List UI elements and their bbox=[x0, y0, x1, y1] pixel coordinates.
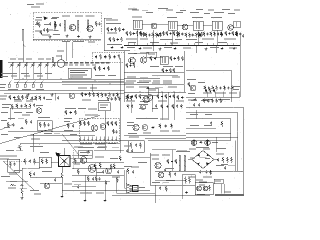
oscillator transistor Q2 bbox=[69, 24, 76, 31]
label row bbox=[203, 93, 237, 94]
switch transistor Q24 bbox=[155, 162, 161, 168]
resistor R_c4 bbox=[221, 121, 223, 127]
label txt bbox=[126, 101, 167, 102]
capacitor C47 bbox=[130, 64, 132, 67]
label txt2 bbox=[128, 42, 227, 43]
ground g4 bbox=[111, 46, 114, 49]
wire detector bus y92 bbox=[124, 91, 186, 93]
label d2 text bbox=[74, 147, 119, 148]
wire drop x168 bbox=[167, 92, 169, 120]
filter box C3low bbox=[128, 141, 144, 153]
label row2 bbox=[203, 99, 230, 100]
ground g15 bbox=[87, 151, 90, 154]
label stage row bbox=[126, 81, 172, 82]
capacitor C45 bbox=[199, 33, 201, 36]
resistor R90 bbox=[198, 32, 200, 37]
label ic pins text bbox=[80, 143, 116, 144]
wire seg y157 d3 bbox=[132, 156, 150, 158]
capacitor C38 bbox=[171, 160, 173, 163]
ground g5 bbox=[121, 46, 124, 49]
label b4 text bbox=[188, 93, 196, 101]
label driver bbox=[80, 152, 90, 156]
label bbox=[1, 170, 22, 182]
wire conv drop x72 bbox=[71, 42, 73, 58]
capacitor C50 bbox=[181, 96, 183, 99]
mixer transistor Q3 bbox=[87, 25, 93, 31]
resistor Rs1 bbox=[41, 159, 43, 165]
resistor R27 bbox=[232, 31, 234, 36]
label txt bbox=[0, 96, 7, 100]
IC transistor Q14 bbox=[100, 124, 106, 130]
transistor Q15 bbox=[143, 96, 149, 102]
wire T5 lead bbox=[172, 30, 174, 46]
capacitor C7 bbox=[169, 32, 171, 35]
capacitor C17 bbox=[113, 55, 115, 58]
resistor R102 bbox=[212, 99, 214, 104]
small box C3 bbox=[148, 88, 158, 95]
resistor R56 bbox=[135, 94, 137, 99]
capacitor C_d3a bbox=[164, 168, 166, 171]
IC pins bbox=[80, 137, 116, 142]
label speaker text bbox=[139, 187, 145, 188]
resistor R25 bbox=[221, 32, 223, 37]
power transistor Q22 bbox=[88, 165, 96, 173]
resistor R51 bbox=[150, 56, 152, 61]
wire bus y138.8 bbox=[145, 138, 186, 140]
socket transistor Q27 bbox=[203, 186, 208, 191]
wire power box vert x172 bbox=[171, 150, 173, 172]
wire seg y57.5 bbox=[150, 57, 163, 59]
wire bus y135 bbox=[124, 134, 186, 136]
resistor R62 bbox=[212, 86, 214, 91]
resistor R97 bbox=[133, 63, 135, 68]
capacitor C26 bbox=[161, 95, 163, 98]
wire bridge in bbox=[188, 159, 192, 161]
capacitor C d2 bbox=[105, 181, 107, 184]
label txt bbox=[150, 66, 183, 67]
resistor R7 bbox=[126, 31, 128, 36]
capacitor C_ic_r bbox=[115, 130, 117, 133]
resistor R36 bbox=[109, 54, 111, 60]
resistor R55 bbox=[127, 94, 129, 99]
resistor Rs2 bbox=[46, 159, 48, 165]
wire out seg y155 bbox=[72, 154, 92, 156]
AF transistor Q7 bbox=[69, 93, 75, 99]
wire band bus y82 bbox=[14, 81, 124, 83]
wire bus y131.3 bbox=[8, 130, 95, 132]
label bbox=[166, 168, 175, 181]
resistor R33 bbox=[35, 96, 37, 101]
wire stub x55 bbox=[54, 93, 56, 101]
wire d4 seg y180 bbox=[155, 179, 186, 181]
capacitor C48 bbox=[166, 69, 168, 72]
capacitor C band bbox=[57, 96, 59, 99]
junction dot bbox=[94, 80, 110, 84]
bandswitch S1 contact 2 bbox=[16, 82, 18, 87]
label s3 text bbox=[8, 156, 17, 175]
wire gang leads bbox=[12, 67, 47, 79]
resistor R77 bbox=[115, 121, 117, 126]
resistor R_d4b bbox=[165, 186, 167, 192]
label power bbox=[150, 155, 170, 156]
capacitor C24 bbox=[174, 57, 176, 60]
resistor Rs3 inside bbox=[10, 162, 12, 168]
label VOL bbox=[1, 134, 40, 140]
oscillator coil L2 bbox=[56, 55, 65, 67]
capacitor hcap C bbox=[20, 127, 23, 129]
label d2 text2 bbox=[74, 164, 120, 178]
bypass capacitor Cp2 bbox=[198, 103, 200, 106]
wire out bus y175 bbox=[72, 174, 124, 176]
wire drop x216 bbox=[215, 137, 217, 152]
dashed coupling bbox=[72, 150, 74, 170]
tube type text bbox=[27, 4, 44, 8]
capacitor C topright bbox=[242, 34, 244, 37]
capacitor C42 bbox=[221, 33, 223, 36]
capacitor C14 bbox=[43, 96, 45, 99]
table text bbox=[70, 70, 88, 78]
label tr text bbox=[190, 12, 235, 14]
power switch box S3 bbox=[8, 159, 20, 172]
wire out seg y150.5 bbox=[94, 150, 124, 152]
ground g8 bbox=[174, 47, 177, 50]
resistor Rt1 bbox=[39, 122, 41, 128]
ground g17 bbox=[61, 195, 64, 198]
resistor R53 bbox=[178, 56, 180, 61]
variable capacitor VC4 bbox=[31, 62, 35, 68]
variable capacitor VC3 bbox=[24, 62, 28, 68]
wire bus y177 bbox=[30, 176, 62, 178]
IF transformer T8 bbox=[160, 56, 168, 64]
resistor R105 bbox=[177, 95, 179, 100]
title text line 1 bbox=[224, 191, 231, 192]
resistor R11 bbox=[145, 33, 147, 38]
variable capacitor VC1 bbox=[10, 62, 14, 68]
resistor R89 bbox=[178, 32, 180, 37]
capacitor C30 bbox=[227, 86, 229, 89]
transistor Q15b bbox=[140, 104, 145, 109]
wire bus y133 bbox=[186, 132, 231, 134]
wire AGC drop x153 bbox=[152, 30, 154, 51]
resistor R30 bbox=[18, 95, 20, 100]
label conv text2 bbox=[42, 34, 60, 36]
label d1 text bbox=[6, 150, 41, 194]
power transistor Q21 bbox=[80, 157, 87, 164]
resistor R mid1 bbox=[24, 159, 26, 165]
resistor R28 bbox=[236, 31, 238, 36]
wire feedback y70 bbox=[186, 69, 231, 71]
ground g13 bbox=[51, 94, 54, 97]
capacitor Co3 bbox=[92, 177, 94, 180]
wire right edge x184 bbox=[183, 51, 185, 92]
label c1 low bbox=[14, 133, 60, 138]
wire bus x104-130 y50.5 bbox=[104, 50, 130, 52]
capacitor C_c2a bbox=[72, 124, 74, 127]
resistor R76 bbox=[111, 121, 113, 126]
resistor R52 bbox=[170, 56, 172, 61]
resistor R4 bbox=[109, 37, 111, 42]
label bbox=[196, 177, 212, 181]
capacitor C_c3l bbox=[135, 144, 137, 147]
label txt bbox=[160, 39, 182, 40]
junction dots bus bbox=[22, 78, 61, 79]
resistor R9 bbox=[136, 31, 138, 36]
label bbox=[95, 157, 118, 160]
label above bbox=[65, 108, 97, 110]
dial cord diagonal A bbox=[0, 116, 100, 144]
label d3 text bbox=[152, 159, 169, 184]
label2 bbox=[42, 171, 52, 172]
wire speaker leads bbox=[125, 170, 127, 188]
IC pin pads bbox=[79, 139, 117, 141]
label IC-1 bbox=[85, 115, 98, 116]
capacitor C_c3 bbox=[155, 104, 157, 107]
output transformer T9 heavy box bbox=[55, 152, 70, 166]
resistor R91 bbox=[201, 32, 203, 37]
label c3 text2 bbox=[127, 122, 134, 126]
resistor Ro5 bbox=[87, 176, 89, 182]
label d4 low bbox=[188, 177, 207, 186]
capacitor C19 bbox=[85, 93, 87, 96]
power transistor Q23 bbox=[106, 168, 112, 174]
wire bridge out bbox=[214, 159, 218, 161]
wire feedback drop x231 bbox=[230, 70, 232, 102]
resistor Ro2 bbox=[77, 169, 79, 175]
resistor R14 bbox=[163, 31, 165, 36]
resistor R60 bbox=[173, 94, 175, 99]
nested corner wire 2 bbox=[186, 113, 238, 172]
capacitor Cs1 inside bbox=[13, 163, 15, 166]
capacitor C39 bbox=[143, 32, 145, 35]
IF transformer T1 bbox=[62, 15, 70, 31]
resistor R92 bbox=[236, 32, 238, 37]
resistor R87 bbox=[140, 32, 142, 37]
resistor R64 bbox=[224, 86, 226, 91]
label S1 text bbox=[0, 84, 6, 88]
coil L1 bbox=[35, 17, 42, 32]
label filter text bbox=[221, 163, 228, 166]
speaker SP1 bbox=[126, 184, 138, 194]
capacitor C9 bbox=[206, 32, 208, 35]
wire T6 lead bbox=[197, 30, 199, 46]
switch box S2 bbox=[39, 157, 51, 168]
resistor R67 bbox=[16, 104, 18, 109]
wire power left edge x150 bbox=[149, 153, 151, 185]
wire relay vert 2 bbox=[223, 184, 225, 194]
ground g18 bbox=[84, 199, 87, 202]
capacitor C left bbox=[12, 123, 14, 126]
capacitor C31 bbox=[205, 89, 207, 92]
capacitor C36 bbox=[131, 105, 133, 108]
wire seg y181 left bbox=[6, 180, 28, 182]
driver box bbox=[79, 150, 93, 158]
wire under-IC bus y140.5 bbox=[62, 140, 130, 142]
regulator transistor Q18 bbox=[191, 140, 196, 146]
wire main bus y45.5 bbox=[124, 45, 240, 47]
resistor R96 bbox=[126, 63, 128, 68]
capacitor Co2 bbox=[117, 170, 119, 173]
capacitor C_a bbox=[48, 22, 53, 31]
capacitor C23 bbox=[154, 57, 156, 60]
dashed filter box bbox=[92, 52, 124, 62]
wire stage bus y78 bbox=[124, 77, 160, 79]
wire seg y72 bbox=[130, 71, 150, 73]
socket transistor Q26 bbox=[197, 186, 202, 191]
resistor R41 bbox=[81, 92, 83, 97]
label MAIN TUNING bbox=[1, 73, 9, 77]
label Q8 bbox=[128, 53, 149, 55]
resistor R81 bbox=[172, 104, 174, 109]
wire rail y195.5 bbox=[112, 195, 210, 197]
capacitor C6 bbox=[159, 32, 161, 35]
wire drop x85 bbox=[84, 175, 86, 199]
resistor R100 bbox=[173, 68, 175, 73]
resistor R bottomleft bbox=[21, 188, 23, 196]
capacitor C_c1 bbox=[33, 104, 35, 107]
wire conv drop x66 bbox=[65, 42, 67, 61]
wire T9 lead bbox=[61, 167, 63, 173]
ground g7 bbox=[159, 48, 162, 51]
capacitor C_conv2 bbox=[36, 21, 38, 24]
label POWER PACK bbox=[176, 151, 190, 152]
resistor R_d2b bbox=[116, 177, 118, 183]
resistor R29 bbox=[9, 95, 11, 100]
resistor R19 bbox=[189, 33, 191, 38]
wire b4 drops bbox=[207, 92, 239, 98]
dial cord diagonal C bbox=[62, 134, 79, 155]
resistor R78 bbox=[126, 96, 128, 101]
label b4 extra bbox=[233, 86, 240, 90]
capacitor C35 bbox=[166, 105, 168, 108]
resistor R17 bbox=[177, 31, 179, 36]
resistor R65 bbox=[231, 86, 233, 91]
wire stub top bbox=[104, 17, 112, 19]
capacitor C d1 bbox=[54, 178, 56, 181]
resistor R86 bbox=[175, 159, 177, 164]
label bridge bbox=[196, 147, 209, 148]
resistor Ro1 bbox=[74, 158, 76, 164]
variable capacitor VC2 bbox=[17, 62, 21, 68]
wire drop x105 bbox=[104, 180, 106, 199]
capacitor C49 bbox=[207, 99, 209, 102]
capacitor C_d2a bbox=[98, 177, 100, 180]
resistor R24 bbox=[214, 32, 216, 37]
resistor R26 bbox=[225, 31, 227, 36]
resistor R74 bbox=[88, 121, 90, 126]
label txt bbox=[82, 100, 109, 102]
label row bbox=[128, 133, 151, 134]
resistor R6 bbox=[121, 37, 123, 42]
capacitor C15 bbox=[95, 55, 97, 58]
resistor R below T9 bbox=[61, 172, 63, 180]
capacitor Cp3 bbox=[174, 173, 176, 176]
label c3 low bbox=[160, 131, 180, 132]
resistor R104 bbox=[220, 99, 222, 104]
capacitor Cd1 bbox=[126, 149, 128, 152]
resistor R50 bbox=[119, 97, 121, 102]
wire bus y171 bbox=[155, 170, 243, 172]
resistor R18 bbox=[185, 33, 187, 38]
wire vert feed x104 bbox=[103, 18, 105, 51]
label bottom bbox=[80, 193, 104, 194]
wire drop x96 bbox=[95, 168, 97, 181]
resistor R69 bbox=[29, 104, 31, 109]
wire drop x235 bbox=[234, 141, 236, 171]
regulator box bbox=[182, 175, 195, 186]
potentiometer VR1 bbox=[18, 144, 21, 151]
resistor R98 bbox=[162, 68, 164, 73]
capacitor C18 bbox=[103, 67, 105, 70]
label under-bus row bbox=[127, 47, 237, 49]
capacitor C34 bbox=[70, 111, 72, 114]
resistor R15 bbox=[166, 31, 168, 36]
wire link T6-T7 bbox=[203, 24, 212, 26]
dial cord diagonal B bbox=[3, 161, 34, 190]
resistor R71 bbox=[75, 110, 77, 115]
resistor Ro6 bbox=[119, 156, 121, 162]
capacitor C4 bbox=[133, 32, 135, 35]
resistor R93 bbox=[143, 32, 145, 37]
power transformer T10 bbox=[177, 151, 187, 172]
label conv text bbox=[35, 18, 57, 25]
resistor R40 bbox=[108, 66, 110, 71]
label col text bbox=[107, 33, 122, 46]
diode D3 bbox=[199, 141, 203, 143]
switch arms S1 bbox=[9, 80, 43, 84]
IF transformer T2 bbox=[75, 15, 83, 31]
label b3 boxes bbox=[147, 52, 157, 58]
resistor R61 bbox=[204, 86, 206, 91]
resistor R66 bbox=[209, 89, 211, 93]
wire bus y93 bbox=[4, 92, 124, 94]
resistor R_b bbox=[95, 21, 97, 27]
resistor R47 bbox=[117, 93, 119, 98]
capacitor C13 bbox=[31, 96, 33, 99]
resistor R_c3l bbox=[130, 143, 132, 149]
transistor Q20 bbox=[44, 183, 49, 188]
capacitor C8 bbox=[192, 33, 194, 36]
small IF can T7b bbox=[234, 21, 241, 28]
relay box RL1 bbox=[214, 179, 223, 184]
label c1 extra bbox=[4, 115, 30, 128]
wire d2 seg y186 bbox=[72, 185, 96, 187]
label switch bbox=[30, 146, 49, 153]
wire drops to bus bbox=[128, 43, 233, 46]
audio IC dashed box U1 bbox=[79, 118, 119, 142]
ground g6 bbox=[139, 47, 142, 50]
wire right drop x240b bbox=[239, 46, 241, 98]
resistor R95 bbox=[221, 32, 223, 37]
label c1 text bbox=[2, 101, 33, 108]
resistor Ro7 bbox=[94, 164, 96, 170]
capacitor C_c bbox=[98, 22, 100, 25]
resistor R2 bbox=[115, 27, 117, 32]
resistor R106 bbox=[181, 104, 183, 109]
dial pointer diagonal C bbox=[0, 124, 14, 130]
wire bus y90.5 bbox=[0, 90, 124, 92]
resistor R low1 bbox=[10, 184, 16, 186]
label top band row A bbox=[132, 10, 186, 11]
capacitor C3 bbox=[117, 38, 119, 41]
resistor R8 bbox=[130, 31, 132, 36]
label c3low text bbox=[129, 137, 139, 138]
driver transistor Q16 bbox=[133, 124, 139, 130]
label TR-1 OSC bbox=[62, 41, 95, 43]
resistor R13 bbox=[155, 33, 157, 38]
resistor R feedback bbox=[188, 82, 190, 87]
capacitor C20 bbox=[105, 93, 107, 96]
IF transformer T5 bbox=[167, 17, 177, 30]
